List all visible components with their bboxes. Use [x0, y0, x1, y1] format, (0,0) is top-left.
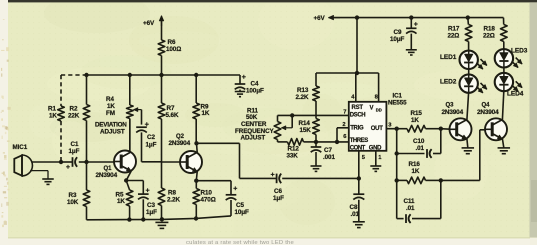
svg-text:1K: 1K: [49, 112, 57, 119]
svg-text:GND: GND: [369, 146, 382, 152]
svg-text:R14: R14: [299, 120, 311, 127]
svg-text:15K: 15K: [300, 127, 312, 134]
svg-text:5.6K: 5.6K: [166, 112, 179, 119]
svg-text:R16: R16: [409, 161, 421, 168]
svg-text:C9: C9: [394, 29, 402, 36]
svg-text:1μF: 1μF: [146, 209, 157, 216]
svg-text:2.2K: 2.2K: [296, 94, 309, 101]
svg-text:1μF: 1μF: [273, 195, 284, 202]
svg-text:LED3: LED3: [511, 48, 528, 55]
svg-text:RST: RST: [352, 105, 364, 111]
svg-text:R13: R13: [297, 87, 309, 94]
svg-text:100Ω: 100Ω: [166, 46, 181, 53]
svg-text:.01: .01: [351, 211, 360, 218]
svg-text:10K: 10K: [67, 199, 79, 206]
svg-text:22Ω: 22Ω: [483, 33, 495, 40]
svg-text:C4: C4: [251, 81, 259, 88]
svg-text:LED1: LED1: [440, 54, 457, 61]
svg-text:2N3904: 2N3904: [477, 109, 499, 116]
svg-text:22K: 22K: [68, 112, 80, 119]
svg-text:R18: R18: [484, 25, 496, 32]
svg-text:C7: C7: [324, 147, 332, 154]
svg-text:100μF: 100μF: [246, 88, 264, 95]
svg-text:10μF: 10μF: [235, 209, 250, 216]
svg-text:R17: R17: [448, 25, 460, 32]
svg-text:R15: R15: [411, 110, 423, 117]
svg-text:10μF: 10μF: [390, 36, 405, 43]
svg-text:C3: C3: [147, 202, 155, 209]
svg-text:1μF: 1μF: [146, 142, 157, 149]
svg-text:1K: 1K: [117, 198, 125, 205]
svg-text:FM: FM: [106, 110, 115, 117]
svg-text:C2: C2: [147, 134, 155, 141]
svg-text:OUT: OUT: [371, 126, 383, 132]
svg-text:1K: 1K: [411, 117, 419, 124]
svg-text:.01: .01: [416, 145, 425, 152]
svg-text:Q3: Q3: [446, 103, 455, 109]
svg-text:DSCH: DSCH: [350, 113, 366, 119]
svg-text:2N3904: 2N3904: [96, 172, 118, 179]
svg-text:+6V: +6V: [314, 15, 326, 22]
svg-text:NE555: NE555: [388, 100, 407, 107]
svg-text:C5: C5: [236, 202, 244, 209]
svg-text:ADJUST: ADJUST: [241, 135, 266, 142]
svg-text:C11: C11: [404, 198, 416, 205]
svg-text:2N3904: 2N3904: [169, 140, 191, 147]
svg-text:V: V: [370, 106, 374, 112]
svg-text:470Ω: 470Ω: [201, 196, 216, 203]
svg-text:R12: R12: [288, 146, 300, 153]
svg-text:C10: C10: [413, 138, 425, 145]
svg-text:1K: 1K: [412, 168, 420, 175]
svg-text:C8: C8: [350, 204, 358, 211]
svg-text:IC1: IC1: [393, 92, 403, 99]
svg-text:2: 2: [342, 122, 345, 128]
svg-text:.001: .001: [323, 154, 335, 161]
svg-text:22Ω: 22Ω: [448, 33, 460, 40]
svg-text:DD: DD: [376, 107, 382, 112]
svg-text:TRIG: TRIG: [350, 125, 364, 131]
svg-text:2N3904: 2N3904: [442, 109, 464, 116]
svg-text:CONT: CONT: [350, 146, 366, 152]
svg-text:+6V: +6V: [143, 20, 155, 27]
svg-text:Q4: Q4: [482, 103, 491, 109]
svg-text:2.2K: 2.2K: [167, 196, 180, 203]
svg-text:1μF: 1μF: [69, 148, 80, 155]
svg-text:ADJUST: ADJUST: [100, 128, 125, 135]
svg-text:7: 7: [343, 110, 346, 116]
svg-text:THRES: THRES: [350, 138, 369, 144]
svg-text:C6: C6: [274, 188, 282, 195]
svg-text:33K: 33K: [287, 153, 299, 160]
svg-text:LED2: LED2: [440, 79, 457, 86]
svg-text:.01: .01: [406, 205, 415, 212]
svg-text:LED4: LED4: [507, 91, 524, 98]
svg-text:culates at a rate set whi: culates at a rate set while two LED the: [186, 240, 295, 245]
svg-text:MIC1: MIC1: [13, 144, 28, 151]
svg-text:1K: 1K: [202, 110, 210, 117]
